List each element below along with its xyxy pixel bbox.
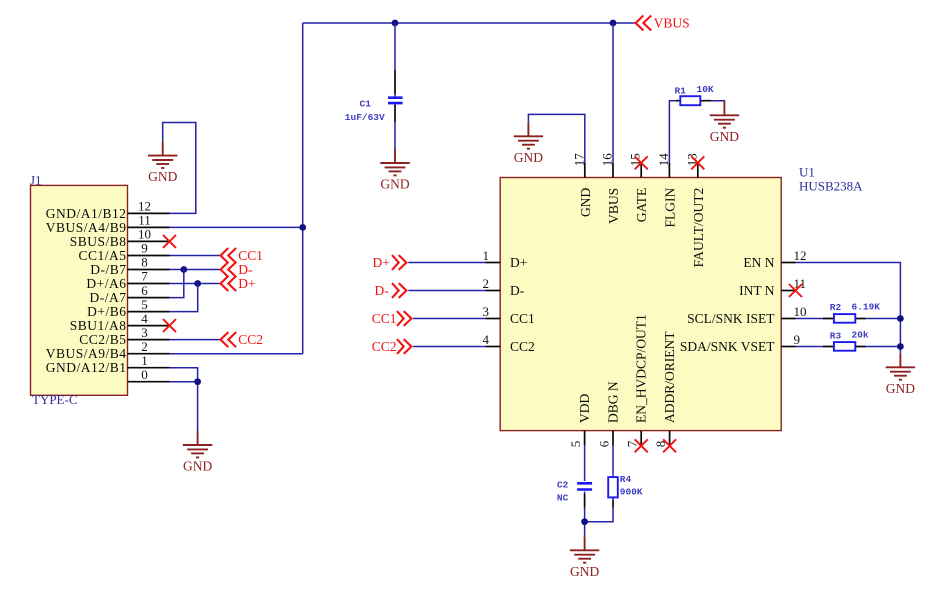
U1 pin 12 EN N right [781, 262, 795, 264]
svg-text:DBG N: DBG N [605, 381, 620, 423]
resistor R4 900K [612, 474, 614, 500]
wire rail left drop to J1 pin2 [302, 23, 304, 354]
no-connect X on J1 pin10 [163, 235, 176, 248]
no-connect X on U1 pin15 [635, 156, 648, 169]
svg-text:CC2: CC2 [510, 339, 535, 354]
svg-text:12: 12 [794, 248, 807, 263]
IC U1 HUSB238A body [500, 178, 781, 431]
J1 pin 8 D-/B7 [128, 269, 170, 271]
svg-text:VBUS: VBUS [606, 188, 621, 224]
svg-text:VBUS: VBUS [654, 16, 690, 31]
wire U1 pin5 down [584, 446, 586, 479]
J1 pin 7 D+/A6 [128, 283, 170, 285]
svg-text:3: 3 [483, 304, 490, 319]
svg-text:6: 6 [141, 283, 148, 298]
svg-text:8: 8 [141, 255, 148, 270]
svg-text:HUSB238A: HUSB238A [799, 179, 863, 194]
svg-text:D-: D- [238, 262, 253, 277]
ground below C2/R4 [570, 536, 600, 579]
svg-text:CC2/B5: CC2/B5 [79, 332, 126, 347]
svg-text:VDD: VDD [577, 394, 592, 423]
U1 pin 16 VBUS top [612, 163, 614, 178]
net flag CC1 left [221, 248, 237, 263]
svg-text:4: 4 [483, 332, 490, 347]
capacitor C1 [394, 70, 396, 95]
ground below C1 [380, 149, 410, 192]
svg-text:CC1: CC1 [238, 248, 263, 263]
J1 pin 4 SBU1/A8 [128, 325, 170, 327]
J1 pin 0 shield [128, 381, 170, 383]
svg-text:D+/B6: D+/B6 [87, 304, 126, 319]
resistor R2 6.19K [796, 318, 823, 320]
U1 pin 13 FAULT/OUT2 top [697, 163, 699, 178]
wire VBUS top rail [303, 22, 636, 24]
no-connect X on U1 pin13 [691, 156, 704, 169]
U1 pin 9 SDA/SNK VSET right [781, 346, 795, 348]
ground below J1 [183, 431, 213, 474]
svg-text:6: 6 [596, 440, 611, 447]
node junction rail/U1 VBUS [610, 20, 617, 27]
wire J1 pin6 up to D- node [170, 270, 184, 298]
svg-text:D+: D+ [373, 255, 390, 270]
svg-text:U1: U1 [799, 165, 815, 180]
svg-text:D-/A7: D-/A7 [90, 290, 127, 305]
no-connect X on U1 pin7 [635, 439, 648, 452]
J1 pin 5 D+/B6 [128, 311, 170, 313]
svg-text:2: 2 [483, 276, 490, 291]
svg-text:FAULT/OUT2: FAULT/OUT2 [691, 188, 706, 268]
svg-text:D+: D+ [510, 255, 527, 270]
svg-text:FLGIN: FLGIN [662, 188, 677, 228]
svg-text:C2: C2 [557, 480, 569, 491]
U1 pin 8 ADDR/ORIENT bottom [669, 431, 671, 446]
U1 pin 1 D+ [486, 262, 501, 264]
wire J1 pin11 to VBUS rail [170, 226, 303, 228]
wire J1 pin9 to CC1 flag [170, 255, 221, 257]
svg-text:12: 12 [138, 199, 151, 214]
wire J1 pin0 to ground [170, 382, 198, 431]
wire U1 pin17 to ground [528, 114, 584, 163]
svg-text:10: 10 [794, 304, 807, 319]
U1 pin 11 INT N right [781, 290, 795, 292]
svg-text:CC1: CC1 [372, 311, 397, 326]
svg-text:10: 10 [138, 227, 151, 242]
svg-text:SBUS/B8: SBUS/B8 [70, 234, 127, 249]
svg-text:TYPE-C: TYPE-C [32, 392, 78, 407]
wire J1 pin8 to D- flag [170, 269, 221, 271]
node junction C2/R4 [581, 518, 588, 525]
svg-text:CC2: CC2 [372, 339, 397, 354]
wire U1 pin12 to right rail [796, 263, 901, 354]
svg-text:VBUS/A4/B9: VBUS/A4/B9 [46, 220, 127, 235]
ground above J1 [148, 142, 178, 185]
J1 pin 12 GND/A1/B12 [128, 212, 170, 214]
svg-text:SCL/SNK ISET: SCL/SNK ISET [687, 311, 775, 326]
svg-text:3: 3 [141, 325, 148, 340]
wire D+ to U1 pin1 [408, 262, 485, 264]
svg-text:1uF/63V: 1uF/63V [345, 112, 385, 123]
wire CC2 to U1 pin4 [413, 346, 486, 348]
svg-text:17: 17 [571, 153, 586, 167]
svg-text:R1: R1 [675, 85, 687, 96]
svg-text:VBUS/A9/B4: VBUS/A9/B4 [46, 346, 127, 361]
svg-text:GND: GND [578, 188, 593, 217]
J1 pin 11 VBUS/A4/B9 [128, 226, 170, 228]
connector J1 body [31, 185, 128, 395]
svg-text:GND/A1/B12: GND/A1/B12 [46, 206, 127, 221]
svg-text:D-: D- [375, 283, 390, 298]
svg-text:1: 1 [141, 353, 148, 368]
J1 pin 3 CC2/B5 [128, 339, 170, 341]
resistor R3 20k [796, 346, 823, 348]
node junction D+ [194, 280, 201, 287]
svg-text:EN N: EN N [743, 255, 774, 270]
capacitor C2 NC [584, 479, 586, 494]
wire J1 pin2 to rail drop [170, 353, 303, 355]
wire R4 to ground node [585, 508, 613, 522]
svg-text:CC1: CC1 [510, 311, 535, 326]
svg-text:D-/B7: D-/B7 [90, 262, 126, 277]
ground right rail [886, 353, 916, 396]
ground left of U1 top [514, 122, 544, 165]
resistor R1 10K [669, 101, 675, 163]
U1 pin 5 VDD bottom [584, 431, 586, 446]
svg-text:5: 5 [568, 441, 583, 448]
J1 pin 6 D-/A7 [128, 297, 170, 299]
svg-text:ADDR/ORIENT: ADDR/ORIENT [662, 331, 677, 423]
svg-text:J1: J1 [30, 173, 42, 188]
svg-text:SDA/SNK VSET: SDA/SNK VSET [680, 339, 775, 354]
svg-text:CC2: CC2 [238, 332, 263, 347]
wire R1 to ground [712, 100, 725, 103]
J1 pin 9 CC1/A5 [128, 255, 170, 257]
U1 pin 6 DBG N bottom [612, 431, 614, 446]
svg-text:11: 11 [794, 276, 807, 291]
U1 pin 15 GATE top [640, 163, 642, 178]
node junction pin11/rail [299, 224, 306, 231]
U1 pin 2 D- [486, 290, 501, 292]
wire J1 pin7 to D+ flag [170, 283, 221, 285]
wire J1 pin12 to ground [163, 123, 196, 214]
wire C1 to ground [394, 122, 396, 149]
no-connect X on U1 pin11 [789, 284, 802, 297]
svg-text:R3: R3 [830, 331, 842, 342]
wire C2 to ground node [584, 508, 586, 537]
svg-text:CC1/A5: CC1/A5 [78, 248, 126, 263]
svg-text:5: 5 [141, 297, 148, 312]
svg-text:R4: R4 [620, 474, 632, 485]
svg-text:SBU1/A8: SBU1/A8 [70, 318, 127, 333]
svg-text:6.19K: 6.19K [852, 301, 881, 312]
U1 pin 14 FLGIN top [668, 163, 670, 178]
net flag VBUS [636, 16, 652, 31]
wire CC1 to U1 pin3 [413, 318, 486, 320]
svg-text:D+: D+ [238, 276, 255, 291]
svg-text:R2: R2 [830, 302, 842, 313]
svg-text:900K: 900K [620, 487, 643, 498]
svg-text:20k: 20k [852, 330, 869, 341]
svg-text:9: 9 [141, 241, 148, 256]
svg-text:14: 14 [656, 153, 671, 167]
wire D- to U1 pin2 [408, 290, 485, 292]
svg-text:16: 16 [600, 153, 615, 167]
wire J1 pin5 up to D+ node [170, 284, 198, 312]
svg-text:EN_HVDCP/OUT1: EN_HVDCP/OUT1 [634, 314, 649, 423]
node junction R2/rail [897, 315, 904, 322]
J1 pin 2 VBUS/A9/B4 [128, 353, 170, 355]
U1 pin 4 CC2 [486, 346, 501, 348]
node junction D- [180, 266, 187, 273]
J1 pin 1 GND/A12/B1 [128, 367, 170, 369]
svg-text:NC: NC [557, 493, 569, 504]
J1 pin 10 SBUS/B8 [128, 240, 170, 242]
svg-text:10K: 10K [697, 84, 714, 95]
svg-text:C1: C1 [360, 99, 372, 110]
svg-text:4: 4 [141, 311, 148, 326]
svg-text:1: 1 [483, 248, 490, 263]
wire U1 pin6 down [612, 446, 614, 475]
wire C1 top [394, 23, 396, 70]
svg-text:9: 9 [794, 332, 801, 347]
svg-text:2: 2 [141, 339, 148, 354]
svg-text:GATE: GATE [634, 188, 649, 223]
net flag D+ left [221, 276, 237, 291]
svg-text:INT N: INT N [739, 283, 775, 298]
svg-text:GND/A12/B1: GND/A12/B1 [46, 360, 127, 375]
U1 pin 10 SCL/SNK ISET right [781, 318, 795, 320]
U1 pin 7 EN_HVDCP/OUT1 bottom [640, 431, 642, 446]
net flag D- left [221, 262, 237, 277]
no-connect X on U1 pin8 [663, 439, 676, 452]
wire U1 pin16 VBUS column [612, 23, 614, 163]
node junction pin1/pin0 [194, 378, 201, 385]
U1 pin 3 CC1 [486, 318, 501, 320]
no-connect X on J1 pin4 [163, 319, 176, 332]
svg-text:D+/A6: D+/A6 [86, 276, 126, 291]
svg-text:0: 0 [141, 367, 148, 382]
node junction rail/C1 [392, 20, 399, 27]
net flag CC2 left [221, 332, 237, 347]
svg-text:11: 11 [138, 213, 151, 228]
node junction R3/rail [897, 343, 904, 350]
wire J1 pin3 to CC2 flag [170, 339, 221, 341]
ground below R1 [710, 101, 740, 144]
svg-text:7: 7 [141, 269, 148, 284]
wire J1 pin1 down to shield node [170, 368, 198, 382]
U1 pin 17 GND top [584, 163, 586, 178]
svg-text:D-: D- [510, 283, 525, 298]
